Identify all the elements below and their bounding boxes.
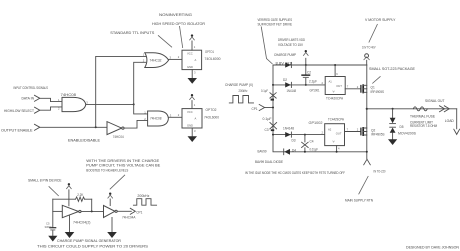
wire U5 vcc stem	[191, 41, 193, 50]
resistor R1 zigzag	[76, 197, 85, 201]
svg-text:IRF4905S: IRF4905S	[371, 133, 385, 137]
and-gate U4 74HC08	[148, 111, 169, 126]
capacitor C5 plate1	[49, 227, 56, 228]
node C4 bottom	[304, 151, 306, 153]
node C2 mid junction	[305, 84, 307, 86]
svg-text:GND: GND	[187, 124, 193, 128]
mosfet Q2 gate bar	[360, 128, 362, 136]
wire output row	[367, 108, 457, 110]
svg-text:V-: V-	[333, 90, 336, 94]
supply stem VDD 15V	[305, 58, 307, 65]
svg-text:GP1001: GP1001	[310, 88, 320, 92]
svg-text:74HC04A: 74HC04A	[122, 216, 136, 220]
ground symbol TVS	[388, 139, 397, 145]
svg-text:0.01µF: 0.01µF	[310, 148, 319, 152]
supply dot VDD opto2	[191, 94, 193, 96]
node junction enable	[95, 126, 97, 128]
svg-text:C5: C5	[46, 221, 50, 225]
ground symbol opto1	[188, 78, 198, 84]
wire node down to AND gate pin1	[134, 104, 148, 114]
svg-text:OPTO1: OPTO1	[205, 50, 214, 54]
connector CP1 input	[259, 105, 264, 111]
tvs diode D6 bottom	[390, 128, 396, 133]
supply arrow VDD 15V	[303, 53, 308, 56]
svg-text:BOOSTED TO HIGHER LEVELS: BOOSTED TO HIGHER LEVELS	[86, 167, 128, 172]
wire U6 vcc stem	[191, 101, 193, 109]
svg-text:Q1: Q1	[371, 86, 375, 90]
tvs bar mid1	[390, 123, 396, 125]
bubble inverter U9	[79, 210, 81, 212]
supply dot VDD 15V	[305, 50, 307, 52]
svg-text:D5: D5	[400, 125, 404, 129]
svg-text:A: A	[195, 116, 197, 120]
svg-text:IN THE IDLE MODE THE HC CMOS G: IN THE IDLE MODE THE HC CMOS GATES KEEP …	[245, 170, 345, 175]
wire U8 output to Q2 gate	[345, 131, 361, 133]
svg-text:3: 3	[170, 113, 172, 117]
bubble inverter U10	[115, 210, 117, 212]
svg-text:74HC04(2): 74HC04(2)	[73, 220, 91, 224]
wire high/low to gate U1 pin2	[40, 107, 62, 110]
supply stem VDD osc1	[68, 190, 70, 206]
svg-text:THIS CIRCUIT COULD SUPPLY POWE: THIS CIRCUIT COULD SUPPLY POWER TO 20 DR…	[37, 244, 148, 249]
svg-text:0.1µF: 0.1µF	[263, 117, 272, 121]
svg-text:2: 2	[178, 55, 180, 59]
svg-text:RESISTOR 7.5 OHM: RESISTOR 7.5 OHM	[410, 123, 437, 128]
svg-text:2: 2	[322, 131, 324, 135]
svg-text:OUT: OUT	[336, 132, 342, 136]
svg-text:HIGH SPEED OPTO ISOLATOR: HIGH SPEED OPTO ISOLATOR	[152, 21, 205, 26]
node CP1 junction	[272, 107, 274, 109]
svg-text:VCC: VCC	[187, 110, 193, 114]
wire data in to gate U1 pin1	[40, 98, 62, 101]
svg-text:C3: C3	[265, 128, 269, 132]
wire U2 output to opto1	[169, 58, 182, 60]
svg-text:OPTO2: OPTO2	[206, 108, 217, 112]
svg-text:IRF4905S: IRF4905S	[371, 90, 385, 94]
ground symbol opto2	[188, 136, 198, 142]
node pump mid2 left	[272, 134, 274, 136]
node C4 top	[304, 134, 306, 136]
svg-text:SMALL 8 PIN DEVICE: SMALL 8 PIN DEVICE	[28, 177, 62, 182]
leader SOT-223 note	[372, 76, 380, 83]
cap tick pump2	[271, 129, 274, 131]
driver U7 TC4420 box	[325, 77, 345, 95]
opto-isolator U5 74OL6000 box	[182, 50, 202, 69]
supply arrow VDD osc1	[66, 186, 71, 189]
ground symbol U10	[107, 232, 117, 238]
wire left pump rail	[273, 65, 367, 152]
diode D4	[284, 149, 290, 155]
leader boosted voltage note	[110, 175, 125, 190]
connector CP1 output	[130, 208, 135, 214]
wire CP1 to rail	[265, 107, 273, 109]
svg-text:SUFFICIENT FET DRIVE: SUFFICIENT FET DRIVE	[258, 22, 293, 27]
svg-text:0.1µF: 0.1µF	[261, 89, 268, 93]
capacitor X symbol pump1	[270, 93, 276, 98]
wire C5 gnd stem	[52, 231, 54, 236]
svg-text:GND: GND	[187, 65, 193, 69]
wire C2 top stem	[305, 65, 307, 74]
connector OUTPUT ENABLE	[35, 124, 40, 130]
wire C4 top stem	[304, 135, 306, 142]
svg-text:LOAD: LOAD	[445, 118, 454, 123]
wire TVS stem bottom	[392, 133, 394, 139]
svg-text:D2: D2	[283, 78, 287, 82]
inverter U9 triangle	[62, 205, 78, 217]
svg-text:1N4148: 1N4148	[287, 89, 297, 93]
svg-text:D3: D3	[292, 138, 296, 142]
wire U8 gnd stem	[336, 146, 338, 152]
wire left osc vertical	[52, 199, 54, 227]
wire feedback vertical	[91, 199, 93, 211]
supply arrow VDD osc2	[108, 195, 113, 198]
diode D1	[285, 62, 291, 67]
supply dot VDD opto1	[191, 34, 193, 36]
svg-text:GP1002: GP1002	[309, 121, 323, 125]
connector signal out chevron1	[440, 106, 445, 112]
diode D3	[285, 132, 291, 137]
svg-text:3: 3	[86, 100, 88, 104]
svg-text:74HC08: 74HC08	[61, 93, 77, 97]
wire load drop	[456, 109, 458, 129]
wire U10 gnd stem	[111, 217, 113, 232]
svg-text:6: 6	[336, 72, 338, 76]
svg-text:A: A	[195, 58, 197, 62]
svg-text:74HC04: 74HC04	[113, 135, 124, 139]
wire U9 out to U10	[81, 210, 104, 212]
wire U6 gnd stem	[191, 128, 193, 136]
capacitor X symbol pump2	[270, 123, 277, 129]
capacitor X symbol C4	[302, 142, 309, 147]
svg-text:74OL6000: 74OL6000	[205, 57, 221, 61]
diode D2	[285, 82, 291, 87]
svg-text:C2: C2	[307, 71, 311, 75]
mosfet Q2 stubs	[363, 128, 367, 135]
svg-text:2: 2	[357, 128, 359, 132]
svg-text:HIGH/LOW SELECT: HIGH/LOW SELECT	[4, 108, 34, 113]
svg-text:SIGNAL OUT: SIGNAL OUT	[425, 98, 445, 103]
svg-text:BAV99 DUAL DIODE: BAV99 DUAL DIODE	[255, 159, 283, 164]
svg-text:4: 4	[338, 147, 340, 151]
svg-text:2: 2	[178, 113, 180, 117]
svg-text:7: 7	[347, 85, 349, 89]
load arrow	[454, 129, 460, 134]
svg-text:CP1: CP1	[136, 210, 142, 214]
wire C2 bottom stem	[305, 78, 307, 85]
wire U7 vdd stem	[334, 65, 336, 77]
svg-text:74HC08: 74HC08	[150, 117, 162, 121]
capacitor C2 plate2	[303, 77, 309, 78]
wire output enable to inverter	[40, 126, 107, 128]
svg-text:V-: V-	[333, 140, 336, 144]
svg-text:DESIGNED BY DAVE JOHNSON: DESIGNED BY DAVE JOHNSON	[406, 245, 459, 250]
svg-text:D4: D4	[292, 149, 296, 153]
supply arrow VDD opto1	[189, 37, 194, 40]
svg-text:1N4148: 1N4148	[283, 126, 294, 130]
cathode bar D3	[290, 132, 292, 137]
svg-text:MOV4200S: MOV4200S	[398, 131, 416, 135]
svg-text:3: 3	[194, 70, 196, 74]
tvs diode D5 top	[390, 118, 396, 123]
svg-text:2: 2	[357, 85, 359, 89]
leader gate supplies note	[261, 27, 272, 65]
cap tick pump1	[271, 99, 274, 101]
tvs bar mid2	[390, 126, 396, 128]
svg-text:3: 3	[194, 129, 196, 133]
wire osc input row	[53, 210, 63, 212]
svg-text:VCC: VCC	[187, 52, 193, 56]
supply dot VDD osc1	[68, 183, 70, 185]
svg-text:OUT: OUT	[336, 84, 342, 88]
or-gate U2 74HC32	[145, 53, 169, 68]
wire pump mid row to driver1	[273, 84, 325, 86]
supply stem VDD osc2	[109, 199, 111, 206]
svg-text:74HC32: 74HC32	[150, 58, 162, 62]
wire U5 gnd stem	[191, 70, 193, 78]
node output junction	[366, 108, 368, 110]
capacitor C5 plate2	[50, 229, 55, 232]
wire inverter out to AND pin2	[124, 120, 148, 128]
node pump mid left	[272, 84, 274, 86]
node TVS junction	[392, 108, 394, 110]
svg-text:V MOTOR SUPPLY: V MOTOR SUPPLY	[365, 17, 396, 22]
wire C4 bottom stem	[304, 148, 306, 152]
connector HIGH/LOW SELECT	[35, 107, 40, 113]
svg-text:2: 2	[322, 81, 324, 85]
wire U4 output to opto2	[168, 116, 182, 118]
svg-text:INPUT CONTROL SIGNALS: INPUT CONTROL SIGNALS	[14, 85, 49, 90]
supply circle V motor	[365, 54, 369, 58]
connector signal out chevron2	[444, 106, 449, 112]
capacitor C2 plate1	[301, 74, 310, 76]
svg-text:74OL6000: 74OL6000	[204, 116, 219, 120]
svg-text:C4: C4	[310, 139, 314, 143]
leader opto isolator note	[180, 26, 183, 48]
svg-text:SMALL SOT-223 PACKAGE: SMALL SOT-223 PACKAGE	[369, 66, 415, 71]
svg-text:CP1: CP1	[252, 107, 258, 111]
svg-text:THERMAL FUSE: THERMAL FUSE	[410, 114, 435, 119]
mosfet Q1 channel bar	[362, 84, 364, 93]
svg-text:3: 3	[170, 55, 172, 59]
supply dot VDD osc2	[109, 193, 111, 195]
waveform square wave osc	[133, 199, 156, 206]
svg-text:200kHz: 200kHz	[239, 89, 248, 93]
svg-text:2.2K: 2.2K	[77, 193, 84, 197]
svg-text:DATA IN: DATA IN	[22, 96, 35, 101]
bubble inverter U3	[122, 127, 124, 129]
svg-text:A1: A1	[329, 80, 333, 84]
svg-text:MAIN SUPPLY RTN: MAIN SUPPLY RTN	[345, 198, 373, 203]
wire TVS stem top	[392, 109, 394, 118]
wire U9 gnd stem	[69, 216, 71, 232]
svg-text:IN TO-220: IN TO-220	[374, 169, 386, 173]
wire motor supply stem	[366, 60, 368, 65]
opto-isolator U6 74OL6000 box	[182, 109, 202, 128]
node U8 gnd junction	[336, 151, 338, 153]
node U7 vdd junction	[334, 64, 336, 66]
connector main supply bottom	[364, 159, 371, 165]
svg-text:CHARGE PUMP SIGNAL GENERATOR: CHARGE PUMP SIGNAL GENERATOR	[57, 238, 121, 243]
supply chevron V motor	[364, 57, 370, 60]
inverter U3 74HC04	[107, 122, 122, 135]
wire U10 out	[117, 210, 131, 212]
wire node up to OR gate pin2	[134, 62, 146, 104]
svg-text:200kHz: 200kHz	[137, 194, 149, 198]
svg-text:NONINVERTING: NONINVERTING	[159, 12, 192, 17]
svg-text:A2: A2	[328, 128, 332, 132]
mosfet Q1 stubs	[363, 85, 367, 92]
svg-text:1: 1	[194, 103, 196, 107]
wire rail bottom junction dot	[366, 151, 368, 153]
ground symbol C5	[48, 236, 57, 242]
node VDD rail junction	[305, 64, 307, 66]
gate U1 74HC08	[62, 97, 86, 111]
svg-text:TC4429CPA: TC4429CPA	[328, 117, 345, 121]
svg-text:VOLTAGE TO 15V: VOLTAGE TO 15V	[278, 42, 303, 47]
wire U1 output to node	[86, 103, 134, 105]
svg-text:BAV99: BAV99	[258, 150, 267, 154]
cathode bar D1	[290, 62, 292, 67]
cathode bar D2	[290, 82, 292, 87]
connector DATA IN	[35, 95, 40, 101]
svg-text:CHARGE PUMP (X): CHARGE PUMP (X)	[225, 82, 254, 87]
wire enable up to OR gate pin1	[96, 56, 146, 127]
svg-text:1: 1	[194, 45, 196, 49]
svg-text:3300p: 3300p	[45, 225, 53, 229]
supply arrow VDD opto2	[189, 97, 194, 100]
inverter U10 triangle	[104, 206, 115, 218]
svg-text:ENABLE/DISABLE: ENABLE/DISABLE	[68, 138, 100, 143]
mosfet Q1 gate bar	[360, 85, 362, 93]
cathode bar D4	[283, 149, 285, 155]
leader main supply rtn	[359, 176, 369, 194]
leader standard TTL inputs	[158, 35, 172, 47]
svg-text:2.2µF: 2.2µF	[309, 79, 317, 83]
wire U7 output to Q1 gate	[345, 88, 361, 90]
wire pump mid row2 to driver2	[273, 134, 325, 136]
svg-text:STANDARD TTL INPUTS: STANDARD TTL INPUTS	[110, 30, 154, 35]
svg-text:OUTPUT ENABLE: OUTPUT ENABLE	[1, 128, 33, 133]
driver U8 TC4429 box	[325, 124, 345, 146]
thermal fuse F1 squiggle	[413, 107, 427, 111]
node junction U1 out	[133, 103, 135, 105]
node feedback junction	[91, 210, 93, 212]
mosfet Q2 channel bar	[362, 127, 364, 136]
ground symbol U9	[65, 232, 75, 238]
svg-text:7: 7	[347, 127, 349, 131]
wire main rail	[366, 65, 368, 159]
leader small 8 pin device	[49, 186, 59, 196]
wire feedback top row	[53, 198, 92, 200]
waveform square wave top	[229, 96, 253, 103]
leader motor supply	[369, 24, 378, 43]
wire pump top rail	[273, 64, 367, 66]
svg-text:10V TO 40V: 10V TO 40V	[362, 46, 376, 50]
svg-text:TC4420CPA: TC4420CPA	[326, 97, 344, 101]
svg-text:CHARGE PUMP: CHARGE PUMP	[274, 52, 296, 57]
